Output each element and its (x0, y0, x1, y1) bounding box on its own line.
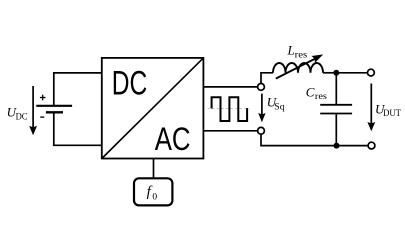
inverter U1 box (DC/AC) (102, 58, 204, 159)
battery V1 (36, 95, 72, 117)
svg-text:DC: DC (16, 112, 28, 122)
wire inverter AC- to terminal (203, 130, 257, 132)
wire battery plus to inverter (54, 73, 102, 105)
terminal bottom right (368, 142, 375, 149)
wire bottom rail (261, 135, 368, 146)
svg-text:0: 0 (152, 192, 157, 202)
svg-text:Sq: Sq (274, 102, 285, 112)
node junction bottom (334, 143, 340, 149)
svg-text:res: res (295, 50, 308, 60)
terminal bottom middle (258, 127, 265, 134)
wire inductor to junction (323, 72, 336, 74)
svg-text:L: L (287, 43, 295, 58)
label C_res (306, 85, 327, 102)
terminal top middle (258, 84, 265, 91)
label f0 (147, 184, 158, 202)
voltage label U_Sq (267, 94, 285, 112)
wire junction to terminal top right (336, 72, 367, 74)
svg-text:DUT: DUT (383, 109, 401, 119)
inductor L_res (273, 63, 323, 73)
voltage label U_DUT (375, 102, 401, 120)
voltage arrow U_DC (29, 86, 37, 135)
svg-text:res: res (315, 92, 327, 102)
voltage arrow U_DUT (367, 84, 375, 132)
voltage arrow U_Sq (258, 94, 265, 123)
voltage label U_DC (7, 105, 28, 123)
oscillator box (134, 178, 172, 205)
wire terminal to inductor (261, 73, 273, 83)
svg-text:AC: AC (155, 121, 191, 157)
square wave icon (208, 97, 250, 121)
wire inverter to oscillator (153, 159, 155, 179)
inductor variable arrow (276, 54, 323, 78)
wire battery minus to inverter (54, 112, 102, 145)
capacitor C_res (320, 73, 352, 146)
svg-text:C: C (306, 85, 315, 100)
svg-text:DC: DC (112, 65, 148, 103)
wire inverter AC+ to terminal (203, 86, 257, 88)
terminal top right (368, 69, 375, 76)
label L_res (287, 43, 308, 61)
inverter diagonal (102, 58, 204, 159)
node junction top (333, 70, 339, 76)
